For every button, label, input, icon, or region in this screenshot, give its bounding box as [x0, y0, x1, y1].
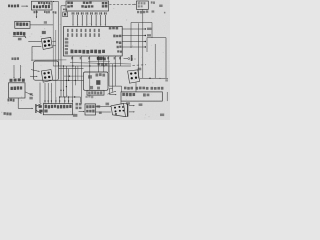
op-amp U1: main microcontroller IC body [64, 27, 123, 57]
wire: long left rail A [58, 2, 60, 67]
wire: right rail E [138, 23, 140, 78]
wire: arrow into CZ2 lower [30, 75, 36, 77]
wire: X1 output down [17, 98, 19, 108]
connector CZ3: 4-pin plug (right middle) [128, 70, 140, 83]
node: label C2H2 between buses [98, 63, 101, 65]
node: sensor label row (left middle) [13, 32, 16, 35]
connector CZ1: 4-pin plug (left middle) [41, 37, 52, 49]
wire: dash after terminal circle [131, 58, 136, 60]
connector CZ2: 4-pin plug inside SH1 [41, 70, 53, 83]
node: label 1.2 above speaker cone [126, 102, 130, 104]
wire: U1 right pin 1 [122, 28, 145, 30]
node: right pin 1 label [147, 28, 152, 30]
wire: drop from feeder to W.B labels [79, 97, 81, 103]
wire: U1 bottom pin drop x81.3 [80, 56, 82, 104]
node: label right of B3 top [151, 1, 153, 3]
wire: comb drop x63.5 [63, 66, 65, 97]
wire: long left rail C [52, 14, 54, 66]
block B7: interface box (bottom center-right) [85, 104, 96, 115]
node: label 3a near speaker [106, 103, 110, 106]
node: U1 bottom inside function label row [71, 50, 74, 54]
node: input signal label (top-left) [8, 5, 10, 8]
wire: CZ2 output down to Q1 [39, 83, 41, 104]
wire: main horizontal bus y66 [53, 65, 131, 67]
node: junction dots on bus y66 [72, 65, 73, 66]
wire: upper feed into CZ1 [28, 40, 41, 42]
transistor Q1: driver (bottom-left) [35, 104, 37, 113]
wire: CZ3 down to B8 [135, 83, 137, 92]
node: label 3a right of B7 [99, 112, 102, 115]
node: label JL-80 [4, 112, 6, 115]
wire: arrow into box B1 from right rail [53, 1, 59, 3]
wire: pins from capacitor bank down to U1 [72, 15, 74, 25]
wire: B7 to speaker lower [96, 111, 111, 113]
wire: diagonal from X1 to driver [25, 92, 33, 96]
node: DS1 segment blob row [45, 105, 47, 108]
block B8: audio amplifier box (bottom right) [121, 92, 162, 101]
node: label 25 [18, 38, 22, 41]
wire: horizontal bus y68.6 [59, 68, 84, 70]
node: label row under B3 [137, 11, 139, 13]
wire: link to amp top [109, 85, 122, 87]
wire: CZ1 exit to rail lower [53, 45, 56, 47]
wire: arrow from B1 down [36, 10, 38, 17]
wire: U1 bottom pin drop x103.8 [103, 56, 105, 72]
block B4: battery holder box (right) [147, 37, 166, 39]
wire: U1 right pin 4 [122, 46, 145, 48]
wire: vertical riser joining CZ1 feeds down to shield box [31, 46, 33, 61]
wire: U1 bottom pin drop x98.3 [97, 56, 99, 72]
node: label IC1 above connector CZ1 [42, 31, 46, 34]
scan background [0, 0, 170, 120]
node: junction marks on comb [60, 90, 61, 91]
node: label 3b under B8 [139, 103, 143, 106]
wire: B2 output to left rails [30, 24, 53, 26]
wire: crystal feed right [20, 65, 22, 77]
wire: comb drop x75.3 [74, 66, 76, 85]
block B6: indicator box A-B [87, 90, 104, 95]
wire: U1 bottom pin drop x120.7 [120, 56, 122, 66]
component C6: capacitor blob inside B5 [96, 80, 100, 85]
wire: link bus down x109 [108, 64, 110, 86]
node: U1 left-edge pin labels [65, 38, 68, 40]
wire: comb drop x66.4 [65, 66, 67, 97]
wire: small arrow from sensor label [23, 35, 25, 38]
node: small label bottom right corner [160, 114, 164, 117]
wire: arrow from DS1 area into B7 [79, 110, 84, 112]
wire: arrow up-right from B6 [108, 92, 115, 95]
node: U1 right-edge pin label CSM [113, 35, 115, 38]
wire: horizontal bus y80.4 from CZ2 to filter box [53, 79, 84, 81]
wire: link to amp mid [109, 88, 113, 90]
wire: horizontal link under B3 [131, 22, 152, 24]
block B5: signal process box (center) [84, 72, 109, 90]
wire: right rail F inside B4 [154, 44, 156, 78]
wire: horizontal feeder y97 above LED box [59, 96, 81, 98]
wire: bottom right bus y78.3 [140, 77, 168, 79]
block DS1: LED digit display box (bottom) [43, 104, 72, 115]
wire: link left drop [130, 23, 132, 49]
wire: horizontal link y59.9 over shield box [31, 59, 66, 61]
node: B5 label C8 [96, 73, 99, 76]
wire: underline of sensor label [13, 35, 26, 37]
node: label 40MHz under X1 [8, 99, 10, 102]
node: U1 right-edge pin label T8 [117, 50, 119, 52]
node: pin labels above crystal box [10, 79, 13, 82]
wire: long left rail B [60, 6, 62, 97]
wire: LED pin stubs with dots [44, 83, 46, 104]
block SH1: shielded compartment (rounded box left) [34, 61, 59, 80]
wire: B8 output down to speaker [120, 101, 122, 104]
wire: sound arrow lower [129, 111, 134, 113]
node: small mark under bus end [165, 79, 168, 81]
wire: B3 output down [142, 9, 144, 78]
block B3: power supply box (top right) [137, 1, 149, 9]
wire: arrow into CZ2 upper [31, 70, 38, 72]
component BZ1: buzzer label [63, 9, 65, 11]
node: label W.B right of DS1 [76, 103, 79, 106]
wire: lower feed into CZ1 [32, 45, 41, 47]
node: U1 right-edge pin label C8 [116, 41, 118, 43]
wire: U1 right pin 3 [122, 41, 145, 43]
node: label row above amp box B8 [124, 87, 127, 90]
wire: second horizontal bus y63 [70, 63, 131, 64]
block B1: key input circuit box [32, 1, 53, 10]
node: small label under B6 [86, 96, 88, 98]
node: pin labels under box B1 [34, 11, 36, 13]
wire: comb drop x68.2 [67, 69, 69, 81]
wire: arrow from input label into keypad box B1 [21, 5, 26, 7]
wire: crystal feed left [13, 65, 15, 77]
wire: U1 bottom pin drop x72.8 [72, 56, 74, 97]
node: right pin 2 label [147, 34, 151, 36]
speaker LS1: front bar [127, 104, 129, 117]
wire: U1 right pin 2 [122, 35, 145, 37]
wire: U1 bottom pin drop x89.8 [89, 56, 91, 90]
node: U1 right-edge pin label D8 [117, 46, 119, 48]
node: pin numbers under U1 bottom edge [71, 57, 73, 59]
wire: drop to arrow into amp box [109, 89, 111, 95]
component BZ1: buzzer box [63, 12, 68, 17]
node: B5 label hash [90, 86, 94, 89]
node: U1 top-right label W/B [109, 27, 112, 29]
wire: X1 output right with arrow into Q1 [18, 107, 31, 109]
node: capacitor bank labels between U2 and U1 [72, 12, 73, 14]
speaker LS1: tilted body [111, 103, 126, 116]
speaker LS1: coil dots [114, 107, 116, 109]
block X1: crystal oscillator box [9, 83, 26, 98]
node: label 39 [29, 97, 32, 100]
wire: link bus down x112.6 [112, 64, 114, 89]
wire: comb drop x77.9 [77, 66, 79, 81]
node: dark pin pair label under U1 [97, 57, 102, 60]
wire: CZ1 exit to rail upper [52, 41, 56, 43]
block U2: microcomputer control box (top) [66, 1, 109, 11]
node: battery label 1.5V [12, 57, 14, 59]
node: label right of B3 lower [159, 5, 162, 8]
wire: B7 to speaker upper [96, 106, 110, 108]
node: B5 label 24 [97, 87, 100, 90]
node: DS1 extra segment blob [44, 110, 47, 113]
node: B5 tick label left [88, 75, 92, 78]
wire: partial bus y61.3 [88, 60, 110, 62]
wire: long left rail D [55, 30, 57, 97]
wire: arrow from left rail into U2 [61, 5, 64, 7]
node: label 36.2 right of B7 [96, 105, 100, 108]
wire: dashed continuation of bus y66 [133, 64, 147, 67]
wire: U1 bottom pin drop x115.2 [114, 56, 116, 86]
wire: link right drop [151, 23, 153, 39]
wire: stub with terminal circle below U1 right corner [124, 58, 128, 60]
wire: U1 bottom pin drop x108.8 [108, 56, 110, 72]
wire: sound arrow upper [129, 105, 134, 107]
node: dark tick mark left of B4 [131, 55, 133, 61]
node: U1 top-edge pin name column blobs [67, 29, 69, 32]
wire: horizontal link y76.1 into B5 [64, 75, 84, 77]
node: label 38 right of DS1 bottom [73, 114, 78, 117]
wire: dashed arrow from U2 to power box B3 [109, 3, 134, 5]
node: label 22 right of B2 [44, 21, 47, 24]
node: label 31 above CZ3 [138, 68, 142, 71]
block B2: display decode box [15, 21, 30, 28]
node: label 36 on diagonal [30, 93, 33, 95]
wire: B8 right edge stub [166, 92, 168, 101]
